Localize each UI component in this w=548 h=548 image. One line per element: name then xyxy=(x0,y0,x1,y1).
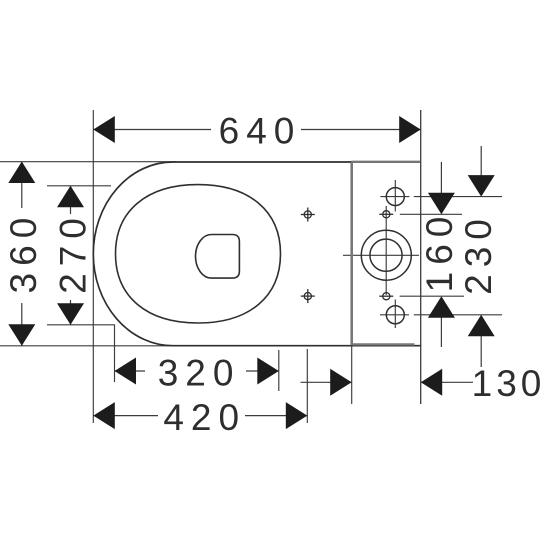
arrowhead 360 top xyxy=(8,162,35,184)
outlet circle outer xyxy=(361,230,411,280)
wire 270 top extension line xyxy=(47,185,111,187)
dimension line 360 xyxy=(21,162,23,346)
dimension line 230 xyxy=(480,146,482,367)
wire 420 right extension line xyxy=(306,349,308,423)
arrowhead 130 right (points left) xyxy=(421,369,443,396)
wire outlet vertical centerline xyxy=(385,206,387,295)
wire top hole horizontal centerline xyxy=(380,196,409,198)
svg-text:160: 160 xyxy=(419,210,460,293)
wire 320 left extension line xyxy=(114,325,116,382)
svg-text:230: 230 xyxy=(458,212,499,295)
svg-text:640: 640 xyxy=(219,111,302,152)
arrowhead 160 bottom (points up) xyxy=(428,296,455,318)
platform top edge (thick) xyxy=(351,161,420,163)
wire 270 bottom extension line xyxy=(47,324,115,326)
wire 230 top extension line xyxy=(414,196,502,198)
mounting hole bottom xyxy=(386,306,404,324)
outlet circle inner xyxy=(370,239,402,271)
wire bottom hole vertical centerline xyxy=(394,300,396,329)
wire 360 top extension line xyxy=(0,161,176,163)
dimension line 320 xyxy=(115,370,279,372)
wire bottom hole horizontal centerline xyxy=(380,314,409,316)
wire 640 right extension / platform right edge xyxy=(420,110,422,404)
arrowhead 360 bottom xyxy=(8,324,35,346)
wire outlet horizontal centerline xyxy=(343,254,419,256)
bowl outer outline xyxy=(93,162,420,346)
arrowhead 230 top (points down) xyxy=(468,175,495,197)
arrowhead 420 left xyxy=(93,402,115,429)
arrowhead 320 left xyxy=(115,358,137,385)
dimension line 420 xyxy=(93,415,307,417)
svg-text:420: 420 xyxy=(163,397,246,438)
dimension line 130 xyxy=(301,381,473,383)
arrowhead 270 bottom xyxy=(57,303,84,325)
arrowhead 640 right xyxy=(399,116,421,143)
arrowhead 320 right xyxy=(257,358,279,385)
wire 360 bottom extension line xyxy=(0,345,176,347)
dimension line 270 xyxy=(70,186,72,325)
wire platform left edge lower extension xyxy=(351,346,353,404)
wire 160 top extension line xyxy=(400,213,462,215)
svg-text:360: 360 xyxy=(3,211,44,294)
arrowhead 130 left (points right) xyxy=(330,369,352,396)
platform bottom edge (thick) xyxy=(353,343,415,345)
wire 640 left extension line xyxy=(92,110,94,423)
arrowhead 270 top xyxy=(57,186,84,208)
svg-text:270: 270 xyxy=(53,211,94,294)
platform cross top xyxy=(379,211,393,218)
platform left edge (thick) xyxy=(350,162,353,345)
arrowhead 420 right xyxy=(286,402,308,429)
mounting hole top xyxy=(386,188,404,206)
bowl inner rim xyxy=(116,185,281,323)
wire 230 bottom extension line xyxy=(414,314,502,316)
arrowhead 160 top (points down) xyxy=(428,193,455,215)
wire 320 right extension line xyxy=(278,350,280,391)
arrowhead 640 left xyxy=(93,116,115,143)
svg-text:320: 320 xyxy=(158,352,241,393)
svg-text:130: 130 xyxy=(472,363,546,404)
seat fixing cross top xyxy=(301,208,315,222)
drain opening xyxy=(196,235,240,279)
platform cross bottom xyxy=(379,293,393,300)
arrowhead 230 bottom (points up) xyxy=(468,315,495,337)
seat fixing cross bottom xyxy=(301,289,315,303)
dimension line 640 xyxy=(93,129,420,131)
wire top hole vertical centerline xyxy=(394,180,396,212)
dimension line 160 xyxy=(440,162,442,347)
wire 160 bottom extension line xyxy=(400,295,464,297)
